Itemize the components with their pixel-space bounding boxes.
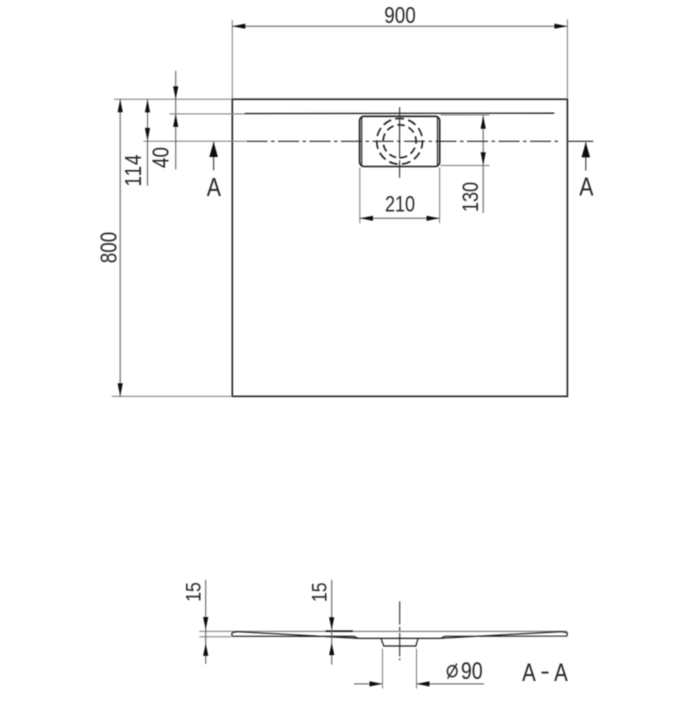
svg-text:90: 90 [461,657,483,684]
svg-text:15: 15 [182,582,206,602]
svg-text:800: 800 [97,232,122,263]
svg-text:A: A [579,173,593,203]
svg-text:210: 210 [385,193,415,217]
svg-text:15: 15 [308,582,332,602]
svg-text:40: 40 [149,147,174,168]
svg-text:114: 114 [121,154,146,187]
svg-text:A: A [522,658,536,686]
svg-text:130: 130 [459,182,483,212]
svg-text:A: A [554,658,568,686]
svg-text:900: 900 [384,3,415,28]
svg-text:A: A [207,173,221,203]
